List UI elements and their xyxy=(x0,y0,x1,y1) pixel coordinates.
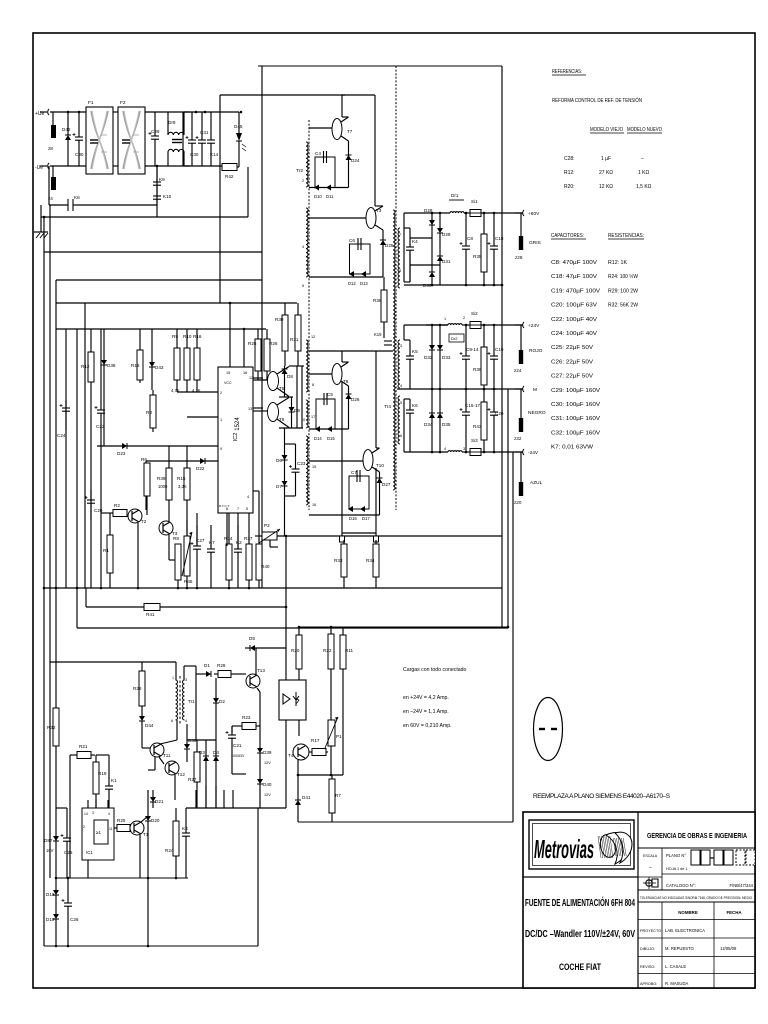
wire IC1 pins xyxy=(88,800,108,878)
svg-text:D12: D12 xyxy=(348,281,356,286)
diode D9 xyxy=(289,407,301,413)
wire T3 emitter net xyxy=(309,230,383,277)
svg-text:R39: R39 xyxy=(157,476,166,481)
wire D29-D31 line xyxy=(439,213,441,285)
wire center block right edge xyxy=(501,66,503,213)
wire IC pin15 xyxy=(229,303,231,367)
svg-text:REFERENCIAS:: REFERENCIAS: xyxy=(552,69,582,75)
capacitor C29 xyxy=(149,112,160,166)
svg-text:REEMPLAZA A PLANO SIEMENS E440: REEMPLAZA A PLANO SIEMENS E44020–A6170–S xyxy=(533,793,670,800)
wire T5 rail top xyxy=(289,365,304,367)
wire y775 line xyxy=(298,774,343,776)
filter module F1 xyxy=(86,100,113,174)
svg-text:R20:: R20: xyxy=(564,184,575,190)
LED D45 xyxy=(236,133,242,141)
wire K4 frame xyxy=(404,228,410,282)
svg-text:R22: R22 xyxy=(323,648,332,653)
capacitor K7 xyxy=(207,525,215,588)
svg-text:6: 6 xyxy=(400,434,402,438)
svg-text:3: 3 xyxy=(92,811,94,815)
wire D32/33 lines xyxy=(426,325,448,389)
svg-text:R27: R27 xyxy=(188,777,197,782)
svg-text:T3: T3 xyxy=(376,208,382,213)
wire C23 link xyxy=(285,444,296,496)
svg-text:D9: D9 xyxy=(294,408,300,413)
symbol battery ellipse xyxy=(534,698,563,761)
svg-text:4: 4 xyxy=(302,245,304,249)
svg-text:K6: K6 xyxy=(412,403,418,408)
svg-text:12: 12 xyxy=(249,376,253,380)
diode D21 xyxy=(150,797,164,804)
wire x502 down xyxy=(501,213,503,627)
wire T5 in xyxy=(253,379,268,381)
wire R11 down xyxy=(342,669,344,775)
capacitor K8 xyxy=(67,199,69,211)
wire R31 bot xyxy=(297,351,299,366)
svg-text:2: 2 xyxy=(463,316,465,320)
op-amp IC2 (SG1524 PWM) xyxy=(218,367,253,513)
diode D31 xyxy=(437,256,451,264)
svg-text:T10: T10 xyxy=(376,463,384,468)
resistor R25 xyxy=(117,818,130,832)
wire P2 line xyxy=(255,535,502,537)
resistor R32 xyxy=(47,588,59,878)
wire x148 top xyxy=(147,790,149,816)
title block v-lines xyxy=(661,848,663,890)
svg-text:FUENTE DE ALIMENTACIÓN 6FH 804: FUENTE DE ALIMENTACIÓN 6FH 804 xyxy=(525,896,635,909)
wire T10 emitter net xyxy=(309,472,380,515)
potentiometer R45 xyxy=(184,536,190,576)
svg-text:C8: 470µF 100V: C8: 470µF 100V xyxy=(551,260,598,266)
svg-text:D31: D31 xyxy=(442,259,451,264)
svg-text:R29: 100 2W: R29: 100 2W xyxy=(608,288,638,294)
svg-text:CATALOGO N°:: CATALOGO N°: xyxy=(666,883,696,888)
resistor R24 xyxy=(165,808,179,878)
svg-text:R26: R26 xyxy=(269,341,278,346)
svg-text:R12: 1K: R12: 1K xyxy=(608,260,628,266)
resistor R19 xyxy=(93,762,107,794)
svg-text:en 60V = 0,210 Amp.: en 60V = 0,210 Amp. xyxy=(403,723,452,729)
svg-text:ESCALA: ESCALA xyxy=(643,854,658,858)
wire T11/T12 links xyxy=(148,720,177,800)
svg-text:1524: 1524 xyxy=(235,417,241,431)
wire main bus y588 xyxy=(44,587,502,589)
wire mid bus y878 xyxy=(56,877,188,879)
resistor R28 xyxy=(133,662,145,706)
diode D41 xyxy=(295,795,311,805)
terminal +24V xyxy=(523,322,524,328)
svg-text:Si1: Si1 xyxy=(471,199,478,204)
svg-text:3: 3 xyxy=(400,344,402,348)
resistor R8 xyxy=(173,536,181,588)
title block h-lines xyxy=(638,847,755,849)
terminal -24V xyxy=(523,449,524,455)
svg-text:R40: R40 xyxy=(261,564,270,569)
svg-text:NOMBRE: NOMBRE xyxy=(678,910,698,915)
diode D25 xyxy=(380,240,394,248)
resistor R10 xyxy=(183,334,192,392)
resistor R11 xyxy=(340,627,354,669)
svg-text:K2: K2 xyxy=(236,540,242,545)
diode D39 xyxy=(257,748,272,755)
potentiometer P2 xyxy=(262,532,277,540)
capacitor C23 xyxy=(289,444,306,496)
svg-text:VCC: VCC xyxy=(224,381,232,385)
wire pads rail xyxy=(342,532,376,534)
transistor T3 xyxy=(366,208,376,229)
diode D5 xyxy=(249,636,255,651)
plano number boxes xyxy=(691,850,755,865)
resistor R2 xyxy=(105,503,127,517)
capacitor C24 xyxy=(57,400,70,438)
svg-text:z20: z20 xyxy=(514,500,522,505)
wire D34/35 lines xyxy=(432,389,440,452)
capacitor C26 xyxy=(62,878,79,946)
svg-text:D21: D21 xyxy=(155,799,164,804)
svg-text:R43: R43 xyxy=(473,424,482,429)
wire x302 link xyxy=(301,366,303,428)
wire D8 line xyxy=(284,366,286,397)
text capacitor list xyxy=(551,260,601,451)
diode D8 xyxy=(282,369,294,379)
wire feed C y252 xyxy=(44,251,262,253)
svg-text:R. MASUDA: R. MASUDA xyxy=(665,981,688,986)
svg-text:en +24V = 4,2 Amp.: en +24V = 4,2 Amp. xyxy=(403,695,449,701)
transistor T12 xyxy=(165,761,185,777)
wire D43 line xyxy=(151,329,153,390)
transistor T4 xyxy=(288,744,309,760)
wire R21 net xyxy=(70,755,109,878)
wire x153 net xyxy=(152,790,154,808)
svg-text:C6: C6 xyxy=(349,238,355,243)
transistor T1 xyxy=(130,821,149,837)
svg-text:en –24V = 1,1 Amp.: en –24V = 1,1 Amp. xyxy=(403,709,449,715)
wire R26 bot xyxy=(258,371,268,380)
svg-text:D25: D25 xyxy=(385,243,394,248)
diode D42 xyxy=(62,127,71,140)
diode D32 xyxy=(424,345,435,360)
svg-text:T11: T11 xyxy=(163,753,171,758)
svg-text:R24: 100 ½W: R24: 100 ½W xyxy=(608,273,638,280)
svg-text:MODELO NUEVO: MODELO NUEVO xyxy=(627,127,662,133)
svg-text:8: 8 xyxy=(312,383,314,387)
snubber C4 xyxy=(315,157,335,188)
resistor R34 xyxy=(366,540,379,588)
svg-text:CAPACITORES:: CAPACITORES: xyxy=(551,233,584,239)
wire x342 down xyxy=(341,382,343,533)
svg-text:RESISTENCIAS:: RESISTENCIAS: xyxy=(608,233,644,239)
svg-text:16: 16 xyxy=(243,371,247,375)
svg-text:R15: R15 xyxy=(177,476,186,481)
svg-text:K19: K19 xyxy=(374,332,382,337)
diode D87 xyxy=(44,836,59,843)
snubber C7 xyxy=(349,476,369,509)
svg-text:PLANO N°: PLANO N° xyxy=(666,853,686,858)
wire T3 coll xyxy=(342,95,383,206)
svg-text:R14: R14 xyxy=(224,536,233,541)
svg-text:D13: D13 xyxy=(360,281,368,286)
svg-text:K3: K3 xyxy=(182,826,188,831)
inductor Dr3 xyxy=(448,451,462,452)
wire R18 top xyxy=(139,329,141,347)
svg-text:4: 4 xyxy=(444,447,446,451)
svg-text:D3: D3 xyxy=(199,750,205,755)
wire D9 line xyxy=(291,397,293,428)
svg-text:4: 4 xyxy=(247,495,249,499)
svg-text:R31: R31 xyxy=(290,337,299,342)
capacitor C21 xyxy=(226,726,242,760)
svg-text:C22: C22 xyxy=(96,424,105,429)
capacitor K6 xyxy=(406,399,418,452)
svg-text:APROBO:: APROBO: xyxy=(640,982,657,986)
wire bridge mid taps xyxy=(410,238,440,265)
svg-text:R36: R36 xyxy=(473,367,482,372)
wire rail y303 xyxy=(56,302,297,304)
wire y662 line xyxy=(50,661,176,663)
svg-text:D14: D14 xyxy=(314,436,322,441)
wire T11 base xyxy=(142,747,150,749)
svg-text:R45: R45 xyxy=(184,579,193,584)
wire K3 bot xyxy=(185,860,187,878)
inductor Dr2 xyxy=(448,324,462,325)
svg-text:Tr4: Tr4 xyxy=(384,404,391,410)
svg-text:100/63V: 100/63V xyxy=(231,754,245,758)
resistor R35 xyxy=(473,213,487,285)
wire D22 rail xyxy=(146,460,218,462)
wire z32 stub xyxy=(520,389,522,418)
svg-text:K14: K14 xyxy=(210,152,219,157)
wire D2 line xyxy=(215,678,217,740)
resistor R21 xyxy=(70,744,95,759)
transformer Tr1 xyxy=(179,676,181,724)
svg-text:K5: K5 xyxy=(412,349,418,354)
svg-text:R35: R35 xyxy=(473,254,482,259)
svg-text:D19: D19 xyxy=(46,917,55,922)
svg-text:K1: K1 xyxy=(111,778,117,783)
svg-text:–: – xyxy=(649,865,652,871)
terminal block z32 xyxy=(514,418,523,441)
capacitor C19 xyxy=(488,325,504,389)
wire IC pin9 xyxy=(217,460,219,462)
svg-text:R11: R11 xyxy=(345,648,354,653)
diode D44 xyxy=(139,716,154,728)
diode D43 xyxy=(149,362,164,370)
svg-text:R.T.C.T.: R.T.C.T. xyxy=(219,504,230,508)
snubber C6 xyxy=(350,244,371,274)
diode D3 xyxy=(199,750,209,761)
wire IC right pin13 xyxy=(253,407,263,409)
svg-text:D42: D42 xyxy=(62,127,71,132)
connector z4 xyxy=(51,177,56,190)
svg-text:D43: D43 xyxy=(155,365,164,370)
svg-text:D24: D24 xyxy=(351,158,360,163)
wire T13 emitter xyxy=(257,688,260,808)
svg-text:C28:: C28: xyxy=(564,156,575,162)
capacitor C30 xyxy=(186,112,199,166)
svg-text:D39: D39 xyxy=(263,750,272,755)
svg-text:Dr2: Dr2 xyxy=(451,336,458,341)
wire center block top xyxy=(258,65,502,67)
svg-text:R6: R6 xyxy=(141,457,147,462)
wire R38 link xyxy=(383,322,385,338)
wire x258 riser xyxy=(257,808,259,946)
wire F1-F2 link top xyxy=(113,111,118,113)
svg-text:C29: 100µF 160V: C29: 100µF 160V xyxy=(551,388,601,394)
svg-text:3,3K: 3,3K xyxy=(178,484,187,489)
wire T7 coll xyxy=(342,95,349,117)
terminal block z28 xyxy=(515,236,523,260)
resistor R3 xyxy=(146,390,156,432)
resistor R16 xyxy=(193,334,202,392)
svg-text:C30: C30 xyxy=(190,152,199,157)
capacitor K9 xyxy=(153,166,165,192)
svg-text:R7: R7 xyxy=(335,793,341,798)
svg-text:Si2: Si2 xyxy=(471,311,478,316)
transformer Tr4 secondary windings xyxy=(398,228,400,288)
wire D41 line xyxy=(297,775,299,822)
capacitor K2 xyxy=(234,525,242,588)
svg-text:3: 3 xyxy=(463,447,465,451)
wire mid rail y392 xyxy=(177,391,218,393)
capacitor K3 xyxy=(182,808,190,860)
svg-text:R34: R34 xyxy=(366,558,375,563)
svg-text:D38: D38 xyxy=(107,363,116,368)
svg-text:≥1: ≥1 xyxy=(96,830,101,835)
svg-text:C32: 100µF 160V: C32: 100µF 160V xyxy=(551,430,601,436)
diode D7 xyxy=(276,481,288,489)
logo globe xyxy=(598,832,632,864)
svg-text:GRIS: GRIS xyxy=(529,240,541,246)
svg-text:C24: C24 xyxy=(57,433,66,438)
svg-text:R37: R37 xyxy=(244,536,253,541)
svg-text:+24V: +24V xyxy=(528,323,540,329)
svg-text:MODELO VIEJO: MODELO VIEJO xyxy=(590,127,623,133)
svg-text:COCHE FIAT: COCHE FIAT xyxy=(559,962,601,973)
wire pins bottom xyxy=(197,513,238,549)
connector pad b xyxy=(374,536,379,542)
svg-text:1 KΩ: 1 KΩ xyxy=(638,170,650,176)
capacitor K19 xyxy=(384,340,392,342)
wire y628 line xyxy=(77,588,508,628)
resistor R29 xyxy=(217,663,231,678)
svg-text:C30: 100µF 160V: C30: 100µF 160V xyxy=(551,402,601,408)
diode D4 xyxy=(213,750,219,761)
wire R27 line xyxy=(187,740,197,808)
svg-text:R32: 56K 2W: R32: 56K 2W xyxy=(608,303,638,309)
svg-text:K8: K8 xyxy=(74,195,80,200)
resistor R9 xyxy=(172,334,180,392)
capacitor C15-17 xyxy=(460,389,481,452)
resistor R41 xyxy=(144,604,160,618)
svg-text:AZUL: AZUL xyxy=(530,480,543,486)
svg-text:D33: D33 xyxy=(442,355,451,360)
wire rail y351 xyxy=(309,350,393,352)
svg-text:10V: 10V xyxy=(46,848,54,853)
capacitor C31 xyxy=(196,112,209,166)
diode D2 xyxy=(213,698,225,704)
inductor Dr9 xyxy=(168,132,184,135)
svg-text:C29: C29 xyxy=(151,129,160,134)
svg-text:z8: z8 xyxy=(48,146,53,151)
svg-text:4: 4 xyxy=(108,812,110,816)
svg-text:z28: z28 xyxy=(515,255,523,260)
svg-text:R25: R25 xyxy=(117,818,126,823)
svg-text:D23: D23 xyxy=(117,451,126,456)
svg-text:z32: z32 xyxy=(514,436,522,441)
svg-text:5: 5 xyxy=(400,401,402,405)
svg-text:D26: D26 xyxy=(351,397,360,402)
svg-text:D1: D1 xyxy=(204,663,210,668)
svg-text:C22: 100µF 40V: C22: 100µF 40V xyxy=(551,317,598,323)
svg-text:D44: D44 xyxy=(145,723,154,728)
diode D27 xyxy=(377,478,391,487)
capacitor C25 xyxy=(61,820,73,878)
svg-text:IC1: IC1 xyxy=(86,850,93,855)
svg-text:R3: R3 xyxy=(146,410,152,415)
transistor T10 xyxy=(363,450,373,471)
svg-text:R18: R18 xyxy=(131,363,140,368)
wire C24 line xyxy=(65,329,67,588)
svg-text:5: 5 xyxy=(246,507,248,511)
wire R22-P1 xyxy=(330,669,332,720)
wire z8 stub xyxy=(52,112,54,125)
svg-text:12: 12 xyxy=(311,335,315,339)
resistor R42 xyxy=(222,164,237,180)
svg-text:K7: 0,01 63VW: K7: 0,01 63VW xyxy=(551,445,593,451)
wire T6 rail bottom xyxy=(279,427,303,429)
wire x86 stub xyxy=(85,588,87,607)
diode D30 xyxy=(423,272,435,288)
svg-text:F1: F1 xyxy=(88,100,94,106)
wire feed A xyxy=(43,217,45,946)
svg-text:T7: T7 xyxy=(347,129,353,134)
capacitor C8 xyxy=(460,213,474,285)
wire x508 down xyxy=(507,389,509,627)
svg-text:R1: R1 xyxy=(103,548,109,553)
wire C25 top xyxy=(56,808,67,820)
wire rail y329 xyxy=(56,328,266,330)
svg-text:M: M xyxy=(533,387,537,393)
svg-text:REFORMA CONTROL DE REF. DE TEN: REFORMA CONTROL DE REF. DE TENSIÓN xyxy=(552,97,642,104)
svg-text:1 µF: 1 µF xyxy=(601,156,611,162)
wire D23 rail xyxy=(97,445,218,447)
resistor R17 xyxy=(309,738,328,756)
transformer Tr4 core xyxy=(395,66,397,510)
wire R28-D44 xyxy=(141,706,143,748)
diode D20 xyxy=(145,816,160,823)
resistor R43 xyxy=(473,389,487,452)
terminal block z24 xyxy=(514,350,523,373)
wire T3 base xyxy=(309,217,366,219)
svg-text:5: 5 xyxy=(302,284,304,288)
svg-text:C31: C31 xyxy=(200,130,209,135)
wire K6 top xyxy=(404,399,410,452)
svg-text:REVISO:: REVISO: xyxy=(640,965,655,969)
svg-text:C4: C4 xyxy=(315,151,321,156)
svg-text:12/05/09: 12/05/09 xyxy=(720,946,737,951)
resistor R39 xyxy=(157,446,172,500)
svg-text:IC2: IC2 xyxy=(233,433,239,442)
diode D19 xyxy=(46,914,59,922)
svg-text:2: 2 xyxy=(302,179,304,183)
svg-text:15: 15 xyxy=(312,465,316,469)
wire y808 line xyxy=(186,807,286,809)
diode D18 xyxy=(46,890,59,897)
svg-text:F/NB/47/344: F/NB/47/344 xyxy=(729,883,753,888)
wire +60V rail xyxy=(404,213,523,228)
diode D36 xyxy=(184,738,197,749)
svg-text:R30: R30 xyxy=(275,317,284,322)
